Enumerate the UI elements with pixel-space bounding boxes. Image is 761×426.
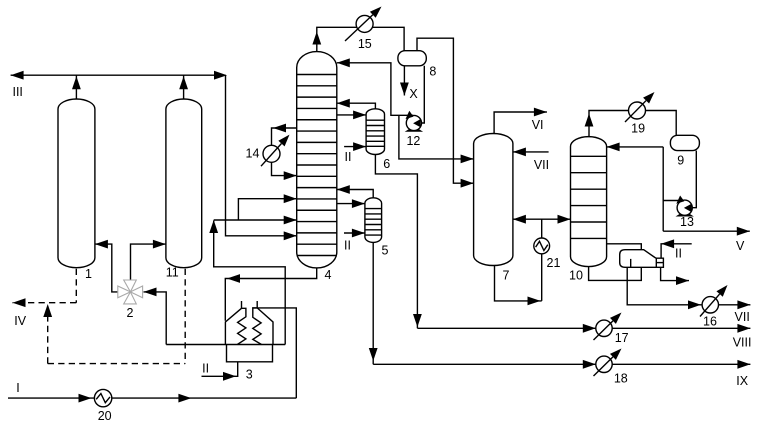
wire stream VII into column 7 bbox=[513, 151, 549, 153]
pump 12 bbox=[405, 129, 423, 132]
heat exchanger 21 reboiler bbox=[541, 254, 543, 301]
wire stream II into column 6 bbox=[344, 146, 366, 148]
wire valve 2 right port from furnace header bbox=[144, 292, 167, 345]
wire column 10 overhead to HE19 bbox=[589, 111, 676, 137]
svg-text:1: 1 bbox=[85, 267, 92, 281]
wire stripper weir bbox=[630, 259, 632, 267]
furnace 3 bbox=[241, 301, 243, 308]
heat exchanger 19 condenser bbox=[629, 102, 646, 119]
svg-text:II: II bbox=[344, 238, 351, 252]
wire inlet to reactor 11 bbox=[131, 244, 166, 280]
wire drum 8 vapor to column 7 bbox=[417, 38, 474, 183]
wire column 4 overhead to HE15 bbox=[317, 27, 404, 51]
svg-text:14: 14 bbox=[246, 147, 260, 161]
svg-text:11: 11 bbox=[166, 265, 179, 279]
wire furnace header line bbox=[166, 344, 285, 346]
wire pump 12 discharge reflux to column 4 bbox=[337, 63, 413, 116]
vessel reactor 11 bbox=[166, 99, 202, 268]
wire product stream V bbox=[663, 230, 750, 232]
wire dashed bottom header bbox=[48, 363, 186, 365]
svg-text:10: 10 bbox=[569, 268, 583, 282]
svg-text:III: III bbox=[12, 85, 22, 99]
wire pump 13 discharge bbox=[663, 200, 684, 202]
wire column 7 overhead stream VI bbox=[494, 112, 547, 134]
wire stream II into stripper drum bbox=[661, 244, 692, 258]
svg-text:20: 20 bbox=[98, 409, 112, 423]
wire column 5 overhead to column 4 bbox=[337, 190, 373, 198]
svg-text:6: 6 bbox=[383, 157, 390, 171]
svg-text:17: 17 bbox=[615, 331, 629, 345]
wire column 7 bottoms to reboiler 21 bbox=[495, 266, 542, 301]
svg-text:19: 19 bbox=[631, 122, 645, 136]
svg-text:2: 2 bbox=[127, 306, 134, 320]
wire stripper bottoms to HE16 bbox=[627, 267, 701, 305]
svg-text:12: 12 bbox=[406, 134, 420, 148]
svg-text:5: 5 bbox=[382, 244, 389, 258]
vessel reflux drum 8 bbox=[398, 51, 426, 66]
column 5 side stripper bbox=[365, 198, 382, 243]
wire stripper nozzle outlet bbox=[661, 267, 689, 280]
wire feed line middle into column 4 bbox=[214, 219, 297, 221]
wire inlet to reactor 1 bbox=[95, 244, 118, 292]
heat exchanger 20 feed heater bbox=[94, 389, 111, 406]
wire riser to column 4 feeds bbox=[214, 221, 286, 345]
wire pump 12 branch to column 7 top feed bbox=[399, 115, 474, 159]
svg-text:9: 9 bbox=[677, 154, 684, 168]
wire drum 8 product X bbox=[403, 66, 405, 96]
svg-text:7: 7 bbox=[503, 268, 510, 282]
svg-text:8: 8 bbox=[429, 65, 436, 79]
vessel reflux drum 9 bbox=[670, 135, 699, 150]
wire reflux into column 10 bbox=[607, 146, 664, 148]
wire dashed reactor 11 drain bbox=[184, 269, 186, 364]
vessel reactor 1 bbox=[58, 99, 95, 268]
wire column 6 overhead to column 4 bbox=[337, 103, 376, 109]
wire column 4 to column 6 feed bbox=[337, 114, 366, 116]
pump 13 bbox=[676, 214, 694, 217]
wire reactor 1 overhead bbox=[75, 75, 77, 99]
svg-text:VII: VII bbox=[534, 158, 549, 172]
svg-text:16: 16 bbox=[703, 314, 717, 328]
column 7 stabilizer bbox=[474, 133, 513, 265]
wire stream II into column 5 bbox=[344, 232, 365, 234]
svg-text:X: X bbox=[409, 87, 418, 101]
svg-text:IV: IV bbox=[14, 314, 26, 328]
wire feed riser to furnace 3 bbox=[252, 308, 296, 398]
wire stream III header bbox=[11, 74, 226, 76]
wire transfer line column 7 to column 10 bbox=[513, 218, 571, 220]
wire column 4 bottoms to furnace 3 bbox=[225, 268, 316, 321]
vessel stripper drum bbox=[620, 250, 664, 268]
svg-text:4: 4 bbox=[325, 268, 332, 282]
svg-text:II: II bbox=[675, 246, 682, 260]
column 6 side stripper bbox=[366, 109, 384, 155]
wire drum 9 to pump 13 bbox=[692, 151, 696, 208]
heat exchanger 18 bbox=[596, 356, 612, 372]
heat exchanger 16 bbox=[702, 297, 718, 313]
svg-text:I: I bbox=[16, 381, 19, 395]
svg-text:13: 13 bbox=[680, 215, 694, 229]
svg-text:21: 21 bbox=[547, 256, 561, 270]
svg-text:18: 18 bbox=[614, 371, 628, 385]
svg-text:II: II bbox=[202, 362, 209, 376]
wire column 4 to column 5 feed bbox=[337, 203, 365, 205]
svg-text:VIII: VIII bbox=[733, 336, 752, 350]
svg-text:IX: IX bbox=[736, 374, 748, 388]
heat exchanger 15 air cooler bbox=[356, 15, 373, 32]
wire drum 8 to pump 12 suction bbox=[421, 66, 424, 123]
heat exchanger 14 pumparound cooler bbox=[272, 128, 297, 145]
svg-text:VI: VI bbox=[532, 118, 544, 132]
wire column 10 side draw to stripper drum bbox=[607, 244, 642, 250]
svg-text:3: 3 bbox=[246, 367, 253, 381]
wire dashed riser to IV bbox=[47, 306, 49, 364]
wire column 6 bottoms to HE17 bbox=[375, 155, 417, 329]
svg-text:15: 15 bbox=[358, 37, 372, 51]
svg-text:II: II bbox=[345, 150, 352, 164]
wire column 10 bottoms to stripper drum bbox=[589, 267, 642, 281]
wire stream II into furnace 3 bbox=[202, 362, 238, 377]
svg-text:V: V bbox=[736, 239, 745, 253]
column 10 rerun column bbox=[571, 137, 607, 267]
svg-text:VII: VII bbox=[735, 310, 750, 324]
wire stream I feed line bbox=[8, 397, 296, 399]
wire dashed reactor 1 drain bbox=[75, 269, 77, 303]
wire feed branch upper into column 4 bbox=[238, 199, 296, 220]
wire dashed stream IV header bbox=[13, 302, 77, 304]
wire feed from III header into column 4 bbox=[226, 75, 297, 236]
valve 2 four-way bbox=[124, 280, 137, 292]
heat exchanger 17 bbox=[596, 320, 612, 336]
column 4 main fractionator bbox=[297, 52, 337, 268]
wire column 5 bottoms to HE18 bbox=[372, 242, 374, 364]
wire reactor 11 overhead bbox=[183, 75, 185, 99]
